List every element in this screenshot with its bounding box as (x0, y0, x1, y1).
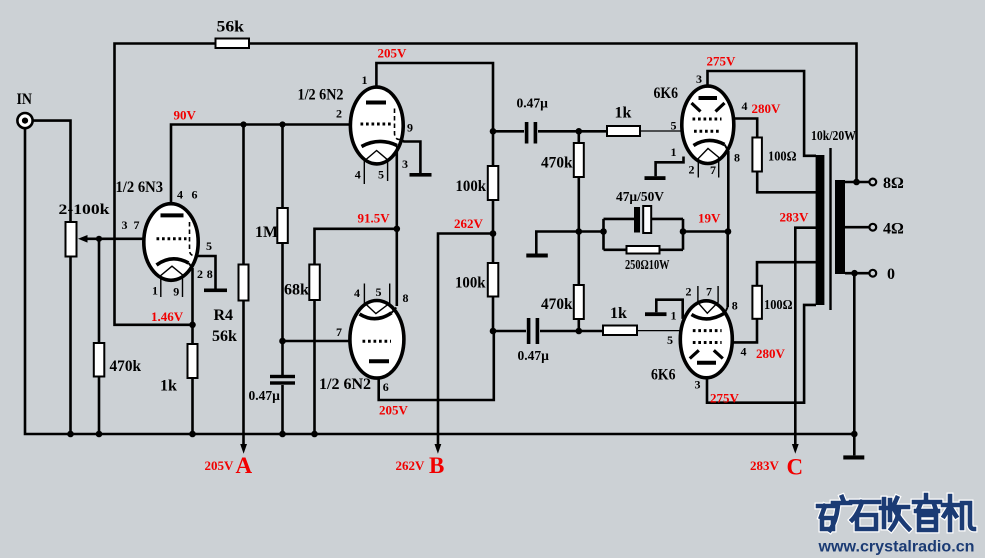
svg-text:283V: 283V (750, 458, 780, 473)
tube 1/2 6N2 upper envelope (350, 87, 403, 164)
node bus 68k junction (311, 431, 318, 438)
6N3 cathode lead to pin 2,8 (189, 263, 193, 268)
wire 6N2a pin9 to ground (398, 139, 420, 173)
svg-text:470k: 470k (541, 296, 573, 313)
svg-text:1k: 1k (610, 305, 627, 322)
svg-text:3: 3 (122, 218, 128, 232)
6K6a heater (698, 149, 718, 178)
wire 1k1 to 6K6a grid (640, 130, 696, 132)
wire RC loop to 19V cathode node (683, 230, 728, 233)
node 90V rail R4 (240, 121, 246, 127)
6K6a cathode lead pin8 (725, 145, 729, 152)
svg-text:8: 8 (734, 151, 740, 165)
svg-text:1: 1 (362, 73, 368, 87)
wire 470k1 node down (577, 131, 580, 231)
svg-text:4: 4 (742, 99, 748, 113)
svg-text:6K6: 6K6 (651, 367, 676, 384)
wire secondary 0 tap (845, 272, 869, 275)
svg-text:4: 4 (354, 286, 360, 300)
svg-text:100Ω: 100Ω (768, 149, 797, 164)
svg-text:205V: 205V (379, 403, 409, 418)
ground 6N2a pin9 (410, 173, 432, 177)
resistor 100ohm upper screen (752, 138, 762, 172)
svg-text:68k: 68k (284, 282, 309, 299)
svg-text:4Ω: 4Ω (883, 221, 904, 238)
svg-text:8: 8 (207, 267, 213, 281)
6K6a screen grid (dotted) (693, 118, 722, 121)
wire 91.5V node to 68k and bus (315, 229, 397, 434)
node RC loop right junction (680, 228, 687, 235)
wire wiper node to 6N3 grid (86, 238, 146, 241)
wire plate2 node to cap2 (493, 330, 526, 333)
svg-text:1: 1 (152, 284, 158, 298)
6K6b control grid (dotted) (693, 329, 722, 332)
node RC loop left junction (600, 228, 607, 235)
svg-text:5: 5 (671, 119, 677, 133)
wire primary center tap 283V to C arrow (795, 228, 816, 445)
svg-text:1.46V: 1.46V (151, 309, 184, 324)
node 90V rail 1M (279, 121, 285, 127)
svg-text:19V: 19V (698, 211, 721, 226)
svg-text:5: 5 (206, 239, 212, 253)
svg-text:R4: R4 (214, 307, 234, 324)
svg-text:275V: 275V (710, 390, 740, 405)
node 91.5V cathode junction (394, 226, 401, 233)
svg-text:7: 7 (336, 325, 342, 339)
ground 6K6b pin1 (645, 312, 667, 316)
6K6b plate bar (697, 361, 716, 365)
svg-text:7: 7 (710, 163, 716, 177)
svg-text:IN: IN (17, 91, 33, 108)
wire 100k1 bottom to 262V node to 100k2 (492, 200, 495, 263)
svg-text:4: 4 (177, 188, 183, 202)
node bias ground junction (576, 228, 583, 235)
wire 6N3 pin5 to ground (190, 256, 216, 289)
capacitor 0.47u upper coupling (525, 122, 529, 144)
6K6b heater (698, 286, 718, 313)
svg-text:7: 7 (706, 285, 712, 299)
svg-text:8Ω: 8Ω (883, 175, 904, 192)
wire wiper node down through 470k to bus (98, 239, 101, 434)
watermark logo strokes (crystalradio) (818, 495, 974, 530)
6N2a plate bar (366, 101, 386, 105)
svg-text:8: 8 (732, 299, 738, 313)
wire secondary 8ohm tap (845, 181, 869, 184)
svg-text:100Ω: 100Ω (764, 297, 793, 312)
6N2a cathode arc (362, 141, 398, 146)
wire 6K6a plate to transformer primary top (708, 71, 817, 156)
tube 6K6 lower envelope (inverted) (680, 301, 732, 378)
svg-text:2: 2 (689, 163, 695, 177)
svg-text:205V: 205V (378, 46, 408, 61)
svg-text:0.47µ: 0.47µ (249, 388, 281, 403)
potentiometer 2-100k body (66, 222, 77, 257)
6N2b plate bar (369, 359, 389, 363)
svg-text:90V: 90V (174, 108, 197, 123)
svg-text:9: 9 (407, 121, 413, 135)
svg-text:470k: 470k (110, 358, 142, 375)
wire 0.47u input cap to bus (281, 385, 284, 434)
svg-text:0.47µ: 0.47µ (518, 348, 550, 363)
resistor 250ohm 10W (627, 246, 660, 254)
wire bias node to mid ground (536, 232, 579, 254)
wire 6K6b screen pin4 through 100ohm to primary tap (721, 262, 816, 342)
terminal 4 ohm (869, 224, 876, 231)
6K6b cathode lead pin8 (725, 307, 728, 313)
svg-text:4: 4 (355, 168, 361, 182)
terminal 0 (869, 270, 876, 277)
svg-text:C: C (787, 455, 804, 480)
svg-text:4: 4 (741, 345, 747, 359)
resistor 470k upper grid leak (574, 143, 584, 177)
tube 1/2 6N3 envelope (144, 204, 198, 281)
capacitor 47u/50V electrolytic negative plate (634, 207, 640, 233)
6N2a shield pin9 (dashed) (395, 109, 401, 140)
svg-text:A: A (236, 453, 253, 478)
wire 100k2 bottom to plate2 node (492, 297, 495, 332)
svg-text:47µ/50V: 47µ/50V (616, 189, 664, 204)
svg-text:100k: 100k (456, 178, 487, 195)
wire top feedback bus from 8ohm tap through 56k to left column (115, 44, 857, 325)
node 19V cathode junction (725, 228, 732, 235)
svg-text:1M: 1M (255, 224, 278, 241)
input jack IN (17, 113, 32, 128)
wire input jack to pot top (32, 121, 71, 222)
svg-text:205V: 205V (205, 458, 235, 473)
resistor 1k grid stopper upper (607, 126, 640, 136)
wire 90V rail to 1M (281, 125, 284, 209)
svg-text:2: 2 (197, 267, 203, 281)
svg-text:100k: 100k (455, 275, 486, 292)
wire cap1 left stub (493, 130, 524, 133)
wire RC loop left (604, 219, 635, 250)
svg-text:262V: 262V (396, 458, 426, 473)
node 262V junction (490, 230, 497, 237)
svg-text:2-100k: 2-100k (59, 202, 111, 218)
svg-text:5: 5 (667, 333, 673, 347)
6K6a cathode arc (694, 140, 725, 145)
resistor 100ohm lower screen (752, 286, 762, 319)
node 1.46V cathode junction (189, 322, 196, 329)
node 205V cap junction (490, 128, 497, 135)
resistor 1M (277, 208, 288, 243)
capacitor 0.47u lower coupling (527, 318, 531, 344)
svg-text:5: 5 (378, 168, 384, 182)
6N3 cathode arc (157, 259, 189, 265)
svg-text:2: 2 (336, 107, 342, 121)
6N3 heater (161, 266, 183, 297)
node plate2 junction (490, 328, 497, 335)
node 0 tap junction (851, 270, 858, 277)
tube 6K6 upper envelope (682, 86, 734, 163)
6N2a cathode lead pin3 (396, 146, 398, 153)
svg-text:3: 3 (402, 157, 408, 171)
wire 6K6a screen pin4 through 100ohm to primary tap (721, 119, 816, 193)
wire cap2 right to 470k2 node to 1k2 (540, 330, 603, 333)
potentiometer wiper arrow (78, 235, 88, 243)
svg-text:283V: 283V (780, 210, 810, 225)
wire bias node to RC loop left stub (579, 230, 604, 233)
svg-text:6: 6 (383, 380, 389, 394)
node wiper/grid junction (96, 236, 102, 242)
transformer core (829, 148, 831, 310)
svg-text:1/2 6N2: 1/2 6N2 (319, 376, 371, 393)
wire 6N3 cathode to 1.46V node and 1k to bus (191, 268, 194, 434)
svg-text:0: 0 (887, 266, 895, 283)
6K6a beam plates (692, 103, 725, 112)
svg-text:1: 1 (671, 309, 677, 323)
ground bottom right (843, 455, 864, 459)
resistor 100k upper (488, 166, 499, 200)
6K6a plate bar (699, 96, 718, 100)
wire cap1 right to 470k node to 1k grid resistor (538, 130, 607, 133)
wire 6K6b plate to transformer primary bottom (707, 305, 816, 403)
wire 6N2a plate 205V line to coupling cap node (376, 63, 493, 166)
node bus 470k junction (96, 431, 103, 438)
wire 6N2b plate 205V line up to plate2 node (379, 331, 494, 400)
6N2b grid (dotted) (363, 340, 392, 343)
wire 262V node to B arrow (438, 234, 493, 445)
wire 6N2a cathode pin3 down to 91.5V node and 6N2b cathode pin8 (395, 152, 398, 306)
svg-text:B: B (429, 453, 444, 478)
ground 6N3 pin5 (204, 289, 227, 293)
arrow A 205V supply (240, 444, 247, 454)
svg-text:280V: 280V (752, 101, 782, 116)
wire 470k2 between bias node and lower grid node (577, 232, 580, 332)
node bus pot junction (67, 431, 74, 438)
6N2a heater (364, 151, 387, 185)
resistor 56k feedback (top) (216, 39, 250, 49)
wire 1k2 to 6K6b grid (637, 330, 696, 332)
svg-text:275V: 275V (707, 54, 737, 69)
6N3 shield pin5 (dashed) (190, 222, 197, 256)
svg-text:262V: 262V (454, 216, 484, 231)
6K6b beam plates (690, 350, 723, 358)
6N3 plate bar (161, 213, 184, 217)
svg-text:2: 2 (686, 285, 692, 299)
6N2a grid (dotted) (361, 123, 392, 126)
capacitor 0.47u input (horizontal plates) (270, 375, 295, 378)
6N2b heater (364, 284, 389, 314)
resistor 470k lower grid leak (574, 285, 584, 319)
wire 0 tap down to bus and ground (853, 273, 856, 455)
wire secondary 4ohm tap (845, 226, 869, 229)
node 6N2b grid junction (279, 338, 286, 345)
terminal 8 ohm (869, 179, 876, 186)
svg-text:6K6: 6K6 (654, 85, 679, 102)
svg-text:56k: 56k (212, 328, 237, 345)
6N2b cathode lead pin8 (392, 308, 397, 313)
wire 6K6b pin1 to ground (656, 300, 682, 319)
node lower grid junction (576, 328, 583, 335)
transformer primary winding 10k/20W (816, 155, 825, 305)
capacitor 47u/50V electrolytic positive plate (643, 206, 651, 233)
transformer secondary winding (835, 180, 845, 274)
tube 1/2 6N2 lower envelope (inverted) (350, 301, 404, 379)
svg-text:1k: 1k (615, 105, 632, 122)
wire jack down to ground bus and ground bus bottom (25, 129, 855, 435)
wire pot bottom to bus (69, 257, 72, 435)
svg-text:3: 3 (695, 378, 701, 392)
resistor 100k lower (488, 263, 499, 297)
node 8ohm tap junction (853, 179, 860, 186)
arrow B 262V supply (435, 444, 442, 454)
svg-text:56k: 56k (217, 19, 245, 36)
svg-text:280V: 280V (756, 346, 786, 361)
ground 6K6a pin1 (645, 176, 666, 180)
resistor 68k (309, 265, 320, 301)
resistor 470k input (94, 343, 105, 377)
svg-text:250Ω10W: 250Ω10W (625, 257, 670, 272)
arrow C 283V supply (792, 444, 799, 454)
node ground bus right junction (851, 431, 858, 438)
svg-text:1: 1 (671, 145, 677, 159)
resistor 1k 6N3 cathode (188, 344, 198, 378)
6K6b screen grid (dotted) (693, 341, 722, 344)
wire RC loop right (652, 219, 684, 250)
svg-text:6: 6 (192, 188, 198, 202)
resistor R4 56k (239, 265, 249, 301)
6N2b cathode arc (360, 313, 392, 319)
svg-text:7: 7 (134, 218, 140, 232)
wire 6K6a pin1 to ground (656, 157, 684, 177)
resistor 1k grid stopper lower (603, 326, 637, 336)
wire 6K6 cathodes vertical (726, 151, 729, 307)
node bus 1k junction (189, 431, 196, 438)
6K6b cathode arc (692, 313, 725, 319)
wire 6N3 plate to 90V rail to 6N2 grid (171, 125, 352, 217)
6K6a control grid (dotted) (694, 130, 722, 133)
svg-text:91.5V: 91.5V (358, 211, 391, 226)
svg-text:8: 8 (403, 291, 409, 305)
svg-text:5: 5 (376, 285, 382, 299)
svg-text:470k: 470k (541, 155, 573, 172)
svg-text:www.crystalradio.cn: www.crystalradio.cn (817, 539, 974, 556)
svg-text:10k/20W: 10k/20W (811, 128, 856, 143)
node bus cap junction (279, 431, 286, 438)
6N3 grid (dotted) (157, 237, 187, 240)
svg-text:1k: 1k (160, 378, 177, 395)
wire 1M bottom to grid node of 6N2b (281, 243, 284, 375)
svg-text:9: 9 (173, 285, 179, 299)
wire R4 bottom to A arrow (242, 301, 245, 445)
ground bias network (526, 254, 548, 258)
wire 90V rail to R4 (242, 125, 245, 265)
svg-text:1/2 6N3: 1/2 6N3 (116, 179, 164, 196)
svg-text:3: 3 (696, 72, 702, 86)
node upper grid junction (576, 128, 583, 135)
svg-text:1/2 6N2: 1/2 6N2 (298, 87, 344, 104)
wire grid node to 6N2b grid pin7 (283, 340, 353, 343)
svg-text:0.47µ: 0.47µ (517, 96, 549, 111)
